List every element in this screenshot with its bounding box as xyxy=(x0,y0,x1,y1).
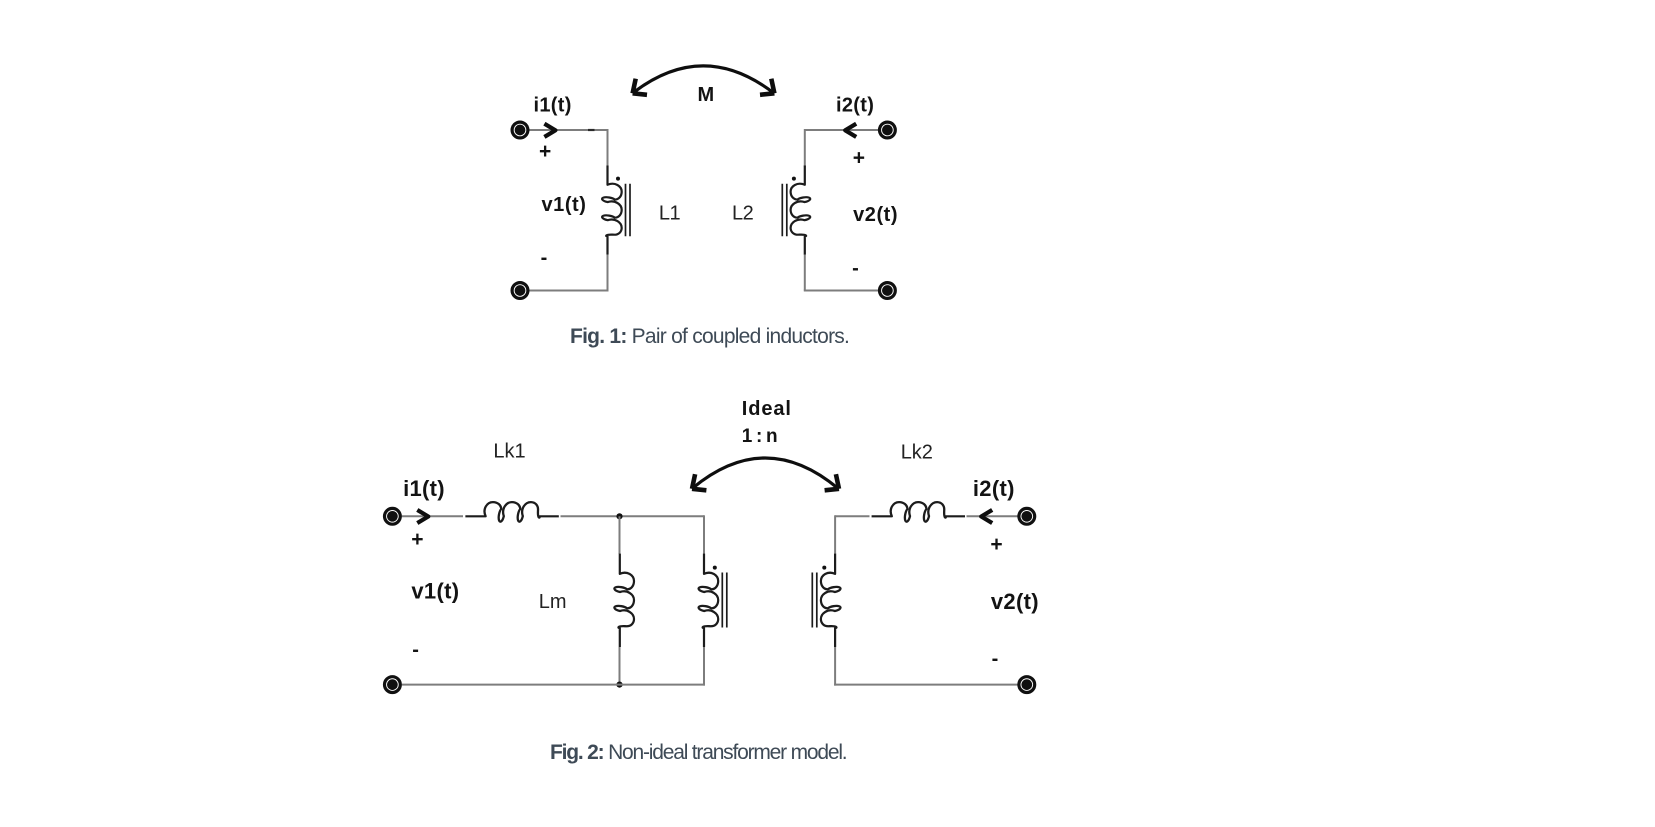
svg-text:+: + xyxy=(990,533,1002,556)
terminal: fig2 port2 top-right xyxy=(1019,508,1035,524)
wire: fig1 dark stub on top-left wire xyxy=(588,129,595,131)
wire: fig2 top-left terminal to Lk1 xyxy=(402,515,463,517)
svg-text:Lk1: Lk1 xyxy=(493,441,525,463)
label i2(t) fig2 xyxy=(973,476,1015,501)
junction dot fig2 bottom node xyxy=(616,682,622,688)
transformer primary coil xyxy=(699,554,719,647)
svg-text:-: - xyxy=(541,247,548,269)
terminal: fig1 port 2 bottom-right xyxy=(880,283,896,299)
label v1(t) fig1 xyxy=(542,194,587,216)
wire: fig2 secondary vertical bottom xyxy=(834,647,836,686)
svg-text:+: + xyxy=(539,140,551,163)
label Lk1 fig2 xyxy=(493,441,525,463)
arrow: fig2 current i2 chevron xyxy=(981,510,992,523)
wire: fig1 right vertical corner down to coil xyxy=(804,129,806,167)
wire: fig1 bottom-right from coil branch to terminal xyxy=(804,290,879,292)
svg-text:L2: L2 xyxy=(732,202,754,224)
terminal: fig1 port 1 top-left xyxy=(512,122,528,138)
svg-text:Ideal: Ideal xyxy=(742,398,792,420)
wire: fig1 top-right from corner to terminal xyxy=(805,129,879,131)
transformer secondary polarity dot xyxy=(822,566,826,570)
label i1(t) fig1 xyxy=(534,95,572,117)
label v2(t) fig1 xyxy=(853,204,898,226)
transformer secondary core bars xyxy=(812,573,817,628)
svg-text:i1(t): i1(t) xyxy=(403,476,445,501)
wire: fig2 Lm branch vertical top xyxy=(619,516,621,554)
label L1 fig1 xyxy=(659,202,681,224)
caption figure 2 xyxy=(550,742,846,763)
svg-text:i1(t): i1(t) xyxy=(534,95,572,117)
label Lm fig2 xyxy=(539,591,567,613)
wire: fig2 top-right secondary corner to Lk2 xyxy=(835,515,869,517)
arrow: fig1 mutual coupling curved double arrow xyxy=(633,66,775,95)
label minus fig1 right xyxy=(852,258,859,280)
svg-text:Lk2: Lk2 xyxy=(901,442,933,464)
svg-text:v2(t): v2(t) xyxy=(991,589,1039,614)
label v1(t) fig2 xyxy=(411,579,459,604)
transformer primary core bars xyxy=(722,573,727,628)
svg-text:i2(t): i2(t) xyxy=(973,476,1015,501)
wire: fig1 left vertical corner down to coil xyxy=(607,129,609,167)
label L2 fig1 xyxy=(732,202,754,224)
label i1(t) fig2 xyxy=(403,476,445,501)
label plus fig1 left xyxy=(539,140,551,163)
label v2(t) fig2 xyxy=(991,589,1039,614)
label minus fig1 left xyxy=(541,247,548,269)
inductor L1 coil xyxy=(602,166,622,255)
wire: fig1 right vertical below coil to bottom wire xyxy=(804,254,806,291)
svg-text:v1(t): v1(t) xyxy=(411,579,459,604)
terminal: fig1 port 2 top-right xyxy=(880,122,896,138)
label plus fig1 right xyxy=(853,146,865,169)
wire: fig2 Lm branch vertical bottom xyxy=(619,647,621,685)
arrow: fig1 current i2 direction chevron xyxy=(845,124,856,137)
svg-text:+: + xyxy=(411,528,423,551)
svg-text:-: - xyxy=(412,639,419,661)
wire: fig1 left vertical below coil to bottom wire xyxy=(607,254,609,291)
wire: fig1 top-left from terminal to corner xyxy=(529,129,608,131)
junction dot fig2 top node xyxy=(616,513,622,519)
wire: fig1 bottom-left from terminal to coil branch xyxy=(529,290,609,292)
label i2(t) fig1 xyxy=(836,95,874,117)
svg-text:L1: L1 xyxy=(659,202,681,224)
inductor Lk2 coil horizontal xyxy=(872,502,965,522)
inductor L1 core bars xyxy=(626,184,631,236)
inductor Lm coil xyxy=(614,554,634,647)
label minus fig2 left xyxy=(412,639,419,661)
label Lk2 fig2 xyxy=(901,442,933,464)
svg-text:Lm: Lm xyxy=(539,591,567,613)
svg-text:i2(t): i2(t) xyxy=(836,95,874,117)
wire: fig2 bottom-right secondary corner to terminal xyxy=(834,684,1018,686)
wire: fig2 bottom-left terminal to primary corner xyxy=(402,684,705,686)
label minus fig2 right xyxy=(992,648,999,670)
terminal: fig1 port 1 bottom-left xyxy=(512,283,528,299)
svg-text:v1(t): v1(t) xyxy=(542,194,587,216)
svg-text:-: - xyxy=(852,258,859,280)
arrow: fig2 ideal transformer curved double arrow xyxy=(692,458,839,490)
inductor L2 polarity dot xyxy=(792,177,796,181)
label plus fig2 right xyxy=(990,533,1002,556)
caption figure 1 xyxy=(570,326,849,347)
arrow: fig1 current i1 direction chevron xyxy=(544,124,555,137)
wire: fig2 primary branch vertical top xyxy=(703,515,705,554)
inductor Lk1 coil horizontal xyxy=(465,502,558,522)
terminal: fig2 port1 bottom-left xyxy=(385,677,401,693)
wire: fig2 Lk2 to right terminal xyxy=(967,515,1018,517)
terminal: fig2 port1 top-left xyxy=(385,508,401,524)
label Ideal fig2 xyxy=(742,398,792,420)
svg-text:-: - xyxy=(992,648,999,670)
label 1:n fig2 xyxy=(742,426,777,447)
inductor L1 polarity dot xyxy=(616,177,620,181)
arrow: fig2 current i1 chevron xyxy=(417,510,428,523)
terminal: fig2 port2 bottom-right xyxy=(1019,677,1035,693)
transformer primary polarity dot xyxy=(713,566,717,570)
inductor L2 coil xyxy=(791,166,811,255)
wire: fig2 primary branch vertical bottom xyxy=(703,647,705,686)
svg-text:+: + xyxy=(853,146,865,169)
inductor L2 core bars xyxy=(782,184,787,236)
wire: fig2 secondary vertical top xyxy=(834,515,836,554)
wire: fig2 top middle Lk1 to corner xyxy=(561,515,705,517)
label plus fig2 left xyxy=(411,528,423,551)
label M fig1 xyxy=(698,84,715,106)
svg-text:M: M xyxy=(698,84,715,106)
transformer secondary coil xyxy=(821,554,841,647)
svg-text:v2(t): v2(t) xyxy=(853,204,898,226)
svg-text:1 : n: 1 : n xyxy=(742,426,777,447)
